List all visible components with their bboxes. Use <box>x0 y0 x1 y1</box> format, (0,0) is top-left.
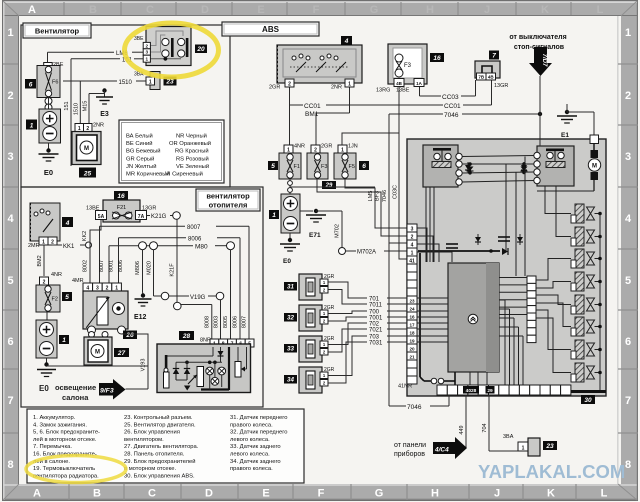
svg-text:18: 18 <box>409 331 415 336</box>
svg-text:C: C <box>146 4 154 16</box>
svg-text:вентилятор: вентилятор <box>206 191 250 200</box>
svg-text:19: 19 <box>409 339 415 344</box>
svg-text:7/D7: 7/D7 <box>541 54 547 67</box>
svg-text:6: 6 <box>362 163 366 170</box>
svg-text:7046: 7046 <box>382 190 388 202</box>
svg-text:4/C4: 4/C4 <box>434 447 449 454</box>
svg-text:BF3: BF3 <box>375 191 381 201</box>
svg-text:7: 7 <box>625 395 631 407</box>
svg-text:E12: E12 <box>134 314 147 321</box>
svg-text:JN Желтый: JN Желтый <box>126 163 156 170</box>
svg-text:8003: 8003 <box>214 316 220 328</box>
svg-text:6: 6 <box>7 336 13 348</box>
svg-text:23: 23 <box>545 443 554 450</box>
svg-text:19. Термовыключатель: 19. Термовыключатель <box>33 466 95 472</box>
svg-text:2GR: 2GR <box>324 274 335 280</box>
svg-text:13GR: 13GR <box>142 206 156 212</box>
svg-text:LM5: LM5 <box>368 191 374 202</box>
svg-text:24: 24 <box>409 307 415 312</box>
svg-text:F1: F1 <box>294 164 300 170</box>
svg-text:23. Контрольный разъем.: 23. Контрольный разъем. <box>124 414 193 421</box>
svg-text:8002: 8002 <box>83 260 89 272</box>
svg-text:7B: 7B <box>478 75 485 80</box>
svg-text:приборов: приборов <box>394 450 425 458</box>
svg-text:L: L <box>597 4 604 16</box>
svg-text:8: 8 <box>7 459 13 471</box>
svg-text:F3: F3 <box>321 164 327 170</box>
svg-text:1A: 1A <box>416 81 423 86</box>
svg-text:2NR: 2NR <box>331 85 342 91</box>
svg-text:CC01: CC01 <box>304 103 321 110</box>
svg-text:1: 1 <box>625 27 631 39</box>
svg-text:5: 5 <box>65 294 69 301</box>
svg-text:32. Датчик переднего: 32. Датчик переднего <box>230 430 287 436</box>
svg-text:1: 1 <box>149 80 152 86</box>
svg-text:M806: M806 <box>135 261 141 275</box>
svg-text:OR Оранжевый: OR Оранжевый <box>169 140 211 147</box>
svg-text:RS Розовый: RS Розовый <box>176 155 209 162</box>
svg-text:2GR: 2GR <box>269 85 280 91</box>
svg-text:G: G <box>375 488 384 500</box>
svg-text:E0: E0 <box>44 168 53 177</box>
svg-text:1: 1 <box>7 27 13 39</box>
svg-text:34. Датчик заднего: 34. Датчик заднего <box>230 459 281 465</box>
svg-text:ABS: ABS <box>262 25 280 34</box>
svg-text:151: 151 <box>64 101 70 110</box>
svg-text:E: E <box>257 4 264 16</box>
svg-text:KK2: KK2 <box>82 231 88 241</box>
svg-text:5: 5 <box>7 275 13 287</box>
svg-text:F2: F2 <box>52 297 58 303</box>
svg-text:K21G: K21G <box>151 214 167 220</box>
svg-text:J: J <box>484 4 490 16</box>
svg-text:2: 2 <box>288 82 291 88</box>
svg-text:29. Блок предохранителей: 29. Блок предохранителей <box>124 458 195 465</box>
svg-text:29: 29 <box>325 183 333 189</box>
svg-text:17: 17 <box>409 323 415 328</box>
svg-text:8: 8 <box>625 459 631 471</box>
svg-text:MR Коричневый: MR Коричневый <box>126 171 170 178</box>
svg-text:E1: E1 <box>561 132 569 139</box>
svg-text:1: 1 <box>411 251 414 257</box>
svg-text:21: 21 <box>409 355 415 360</box>
svg-text:E71: E71 <box>309 232 321 239</box>
svg-text:NR Черный: NR Черный <box>176 133 207 140</box>
svg-text:E0: E0 <box>39 384 49 393</box>
svg-text:30. Блок управления ABS.: 30. Блок управления ABS. <box>124 473 195 479</box>
svg-text:M702: M702 <box>335 224 341 238</box>
svg-text:16: 16 <box>433 55 441 62</box>
svg-text:8006: 8006 <box>118 260 124 272</box>
svg-text:2: 2 <box>7 90 13 102</box>
svg-text:28. Панель отопителя.: 28. Панель отопителя. <box>124 452 185 458</box>
svg-text:VI Сиреневый: VI Сиреневый <box>165 171 203 178</box>
svg-text:3BE: 3BE <box>134 36 144 42</box>
svg-text:449: 449 <box>459 425 465 434</box>
svg-text:правого колеса.: правого колеса. <box>230 466 273 472</box>
svg-text:E3: E3 <box>100 111 109 118</box>
svg-text:1JN: 1JN <box>348 144 358 150</box>
svg-text:K: K <box>547 488 555 500</box>
svg-text:в моторном отсеке.: в моторном отсеке. <box>124 466 176 472</box>
svg-text:2GR: 2GR <box>321 144 332 150</box>
svg-text:4NR: 4NR <box>294 144 305 150</box>
svg-text:29: 29 <box>487 388 493 394</box>
svg-text:A: A <box>33 488 41 500</box>
svg-text:4: 4 <box>65 220 70 227</box>
svg-text:20: 20 <box>196 46 205 53</box>
svg-text:A: A <box>28 4 36 16</box>
svg-text:YAPLAKAL.COM: YAPLAKAL.COM <box>478 461 625 482</box>
svg-text:ВЕ Синий: ВЕ Синий <box>126 140 152 147</box>
svg-text:D: D <box>201 4 209 16</box>
svg-text:30: 30 <box>584 397 592 404</box>
svg-text:BG Бежевый: BG Бежевый <box>126 148 161 155</box>
svg-text:3: 3 <box>411 227 414 233</box>
svg-text:704: 704 <box>482 423 488 432</box>
svg-text:F21: F21 <box>117 205 126 211</box>
svg-text:лей в моторном отсеке.: лей в моторном отсеке. <box>33 436 97 443</box>
svg-text:8NR: 8NR <box>200 338 211 344</box>
svg-text:23: 23 <box>165 79 174 86</box>
svg-text:7. Перемычка.: 7. Перемычка. <box>33 444 72 450</box>
svg-text:26: 26 <box>125 332 134 339</box>
svg-text:4: 4 <box>411 243 414 249</box>
svg-text:4NR: 4NR <box>51 272 62 278</box>
svg-text:3: 3 <box>625 151 631 163</box>
svg-text:25. Вентилятор двигателя.: 25. Вентилятор двигателя. <box>124 422 196 428</box>
svg-text:8007: 8007 <box>99 260 105 272</box>
svg-text:33: 33 <box>287 346 294 353</box>
svg-text:M702A: M702A <box>357 250 376 256</box>
svg-text:8007: 8007 <box>187 225 201 231</box>
svg-text:F6: F6 <box>52 80 58 86</box>
svg-text:6: 6 <box>625 336 631 348</box>
svg-text:M: M <box>84 146 89 152</box>
svg-text:M: M <box>592 164 597 170</box>
svg-text:BM1: BM1 <box>305 111 319 118</box>
svg-text:CC01: CC01 <box>444 103 461 110</box>
svg-text:7: 7 <box>492 53 496 60</box>
svg-text:отопителя: отопителя <box>209 200 248 209</box>
svg-text:H: H <box>426 4 434 16</box>
svg-text:D: D <box>205 488 213 500</box>
svg-text:9/F3: 9/F3 <box>100 388 114 395</box>
svg-text:BM2: BM2 <box>37 255 43 266</box>
svg-text:2GR: 2GR <box>324 305 335 311</box>
svg-text:1: 1 <box>272 212 276 219</box>
svg-text:2GR: 2GR <box>324 367 335 373</box>
svg-text:1: 1 <box>522 446 525 452</box>
svg-text:C03C: C03C <box>393 185 399 199</box>
svg-text:5, 6. Блок предохраните-: 5, 6. Блок предохраните- <box>33 430 100 436</box>
svg-text:13GR: 13GR <box>494 83 508 89</box>
svg-text:5A: 5A <box>98 214 105 220</box>
svg-text:1510: 1510 <box>74 103 80 115</box>
svg-text:23: 23 <box>409 299 415 304</box>
svg-text:V19G: V19G <box>190 295 206 301</box>
svg-text:K21F: K21F <box>170 263 176 277</box>
svg-text:4B: 4B <box>488 75 495 80</box>
svg-text:левого колеса.: левого колеса. <box>230 452 270 458</box>
svg-text:8008: 8008 <box>205 316 211 328</box>
svg-text:4: 4 <box>7 213 14 225</box>
svg-text:6: 6 <box>29 82 33 89</box>
svg-text:освещение: освещение <box>55 383 96 392</box>
svg-text:J: J <box>494 488 500 500</box>
svg-text:4. Замок зажигания.: 4. Замок зажигания. <box>33 422 87 428</box>
svg-text:34: 34 <box>287 377 294 384</box>
svg-text:2MR: 2MR <box>28 243 40 249</box>
svg-text:от выключателя: от выключателя <box>509 34 566 41</box>
svg-text:27: 27 <box>117 350 126 357</box>
svg-text:K: K <box>541 4 549 16</box>
svg-text:33. Датчик заднего: 33. Датчик заднего <box>230 444 281 450</box>
svg-text:1: 1 <box>146 57 149 62</box>
svg-text:4MR: 4MR <box>72 278 84 284</box>
svg-text:4B: 4B <box>396 81 403 86</box>
svg-text:1510: 1510 <box>119 80 133 86</box>
svg-text:E: E <box>262 488 269 500</box>
svg-text:4: 4 <box>344 38 349 45</box>
svg-text:CC03: CC03 <box>442 94 459 101</box>
svg-text:3: 3 <box>7 151 13 163</box>
svg-text:от панели: от панели <box>394 442 426 449</box>
svg-text:ВА Белый: ВА Белый <box>126 133 153 140</box>
svg-text:28: 28 <box>182 333 191 340</box>
svg-text:1: 1 <box>348 82 351 88</box>
svg-text:25: 25 <box>83 171 92 178</box>
svg-text:M020: M020 <box>147 261 153 275</box>
svg-text:E0: E0 <box>283 258 291 265</box>
svg-text:2: 2 <box>146 43 149 48</box>
svg-text:V193: V193 <box>141 359 147 372</box>
svg-text:8005: 8005 <box>223 316 229 328</box>
svg-text:RG Красный: RG Красный <box>175 148 209 155</box>
svg-text:7046: 7046 <box>407 404 422 411</box>
svg-text:1: 1 <box>30 123 34 130</box>
svg-text:1. Аккумулятор.: 1. Аккумулятор. <box>33 415 76 421</box>
svg-text:16: 16 <box>117 193 125 200</box>
svg-text:B: B <box>93 488 101 500</box>
svg-text:правого колеса.: правого колеса. <box>230 422 273 428</box>
svg-text:1: 1 <box>62 337 66 344</box>
svg-text:7046: 7046 <box>444 112 459 119</box>
svg-text:M15: M15 <box>82 101 88 112</box>
svg-text:13BE: 13BE <box>396 88 410 94</box>
svg-text:27. Двигатель вентилятора.: 27. Двигатель вентилятора. <box>124 444 199 450</box>
svg-text:L: L <box>601 488 608 500</box>
svg-text:16: 16 <box>409 315 415 320</box>
svg-text:4: 4 <box>625 213 632 225</box>
svg-text:VE Зеленый: VE Зеленый <box>176 163 209 170</box>
svg-text:H: H <box>431 488 439 500</box>
svg-text:3BA: 3BA <box>503 434 514 440</box>
svg-text:5: 5 <box>271 163 275 170</box>
svg-text:1: 1 <box>42 240 45 246</box>
svg-text:C: C <box>148 488 156 500</box>
svg-text:7: 7 <box>7 395 13 407</box>
svg-text:8006: 8006 <box>188 237 202 243</box>
svg-text:F: F <box>318 488 325 500</box>
svg-text:G: G <box>370 4 379 16</box>
svg-text:13BE: 13BE <box>86 206 100 212</box>
svg-text:41: 41 <box>409 259 415 265</box>
svg-text:KK1: KK1 <box>63 244 75 250</box>
svg-text:7011: 7011 <box>369 303 383 309</box>
svg-text:вентилятором.: вентилятором. <box>124 437 164 443</box>
svg-text:8006: 8006 <box>233 316 239 328</box>
svg-text:F3: F3 <box>404 63 412 69</box>
svg-text:7021: 7021 <box>369 328 383 334</box>
svg-text:Вентилятор: Вентилятор <box>35 26 80 35</box>
svg-text:M80: M80 <box>195 244 208 251</box>
svg-text:13RG: 13RG <box>376 88 390 94</box>
svg-text:GR Серый: GR Серый <box>126 155 154 162</box>
svg-text:7A: 7A <box>138 214 145 220</box>
svg-text:5: 5 <box>625 275 631 287</box>
svg-text:8001: 8001 <box>109 260 115 272</box>
svg-text:4028: 4028 <box>466 388 477 394</box>
svg-text:B: B <box>89 4 97 16</box>
svg-text:2: 2 <box>625 90 631 102</box>
svg-text:26. Блок управления: 26. Блок управления <box>124 430 180 436</box>
svg-text:3: 3 <box>146 50 149 55</box>
svg-text:левого колеса.: левого колеса. <box>230 437 270 443</box>
svg-text:салона: салона <box>62 393 89 402</box>
svg-text:32: 32 <box>287 315 294 322</box>
svg-text:F5: F5 <box>349 164 355 170</box>
svg-text:F: F <box>313 4 320 16</box>
svg-text:M: M <box>95 350 100 356</box>
svg-text:2: 2 <box>411 235 414 241</box>
svg-text:31: 31 <box>287 284 294 291</box>
svg-text:41NR: 41NR <box>398 384 412 390</box>
svg-text:7031: 7031 <box>369 341 383 347</box>
svg-text:2NR: 2NR <box>93 123 104 129</box>
svg-text:20: 20 <box>409 347 415 352</box>
svg-text:2GR: 2GR <box>324 336 335 342</box>
svg-text:31. Датчик переднего: 31. Датчик переднего <box>230 415 287 421</box>
svg-text:8007: 8007 <box>242 316 248 328</box>
